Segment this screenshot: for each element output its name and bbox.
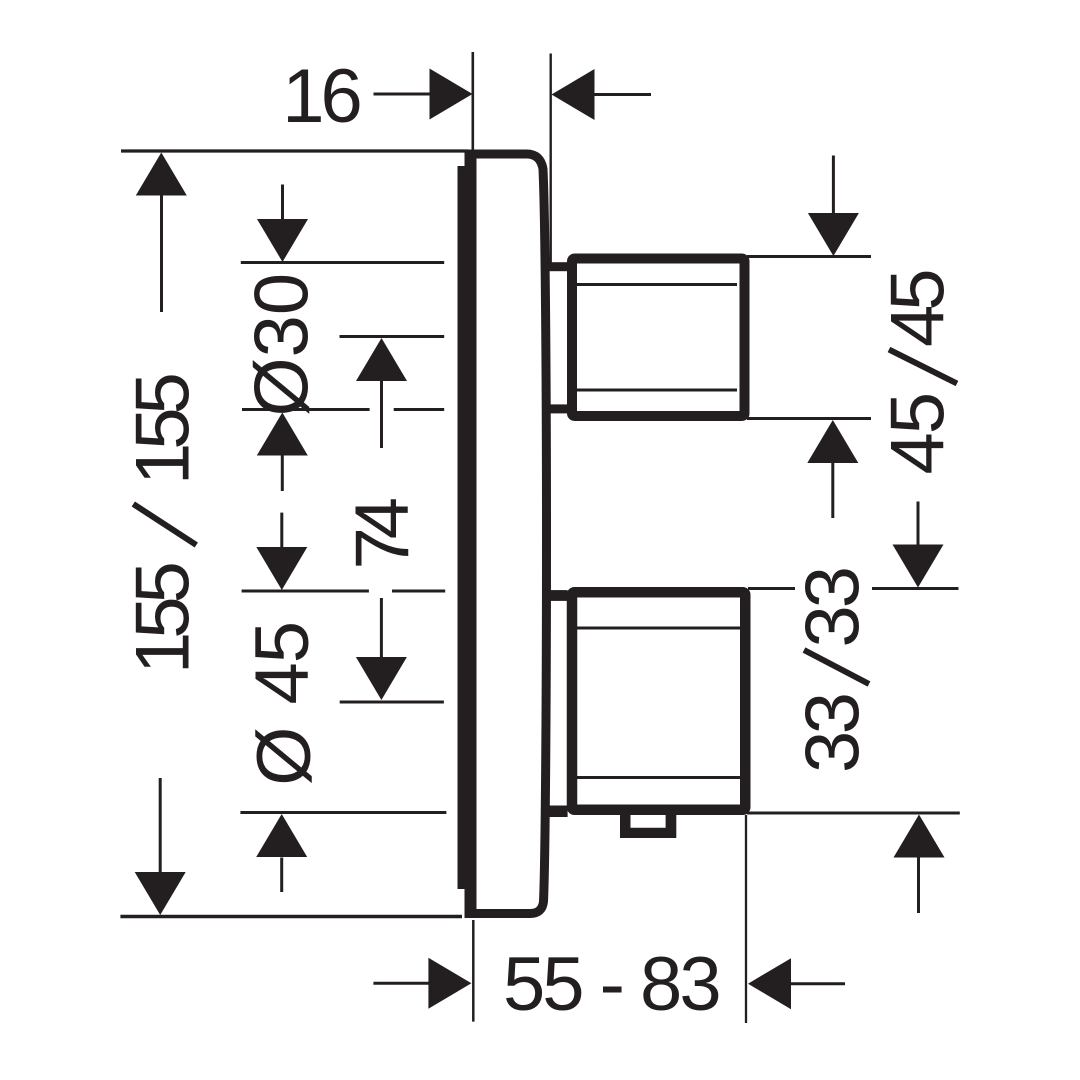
- svg-text:45: 45: [240, 622, 325, 705]
- svg-text:33: 33: [791, 569, 876, 648]
- svg-text:45: 45: [876, 271, 961, 347]
- svg-text:45: 45: [876, 394, 961, 475]
- svg-text:155: 155: [121, 563, 206, 674]
- svg-text:Ø: Ø: [242, 727, 327, 786]
- svg-text:Ø30: Ø30: [239, 273, 324, 417]
- svg-text:155: 155: [121, 374, 206, 485]
- svg-text:33: 33: [791, 695, 876, 773]
- svg-text:55 - 83: 55 - 83: [503, 942, 719, 1027]
- svg-text:16: 16: [282, 54, 359, 139]
